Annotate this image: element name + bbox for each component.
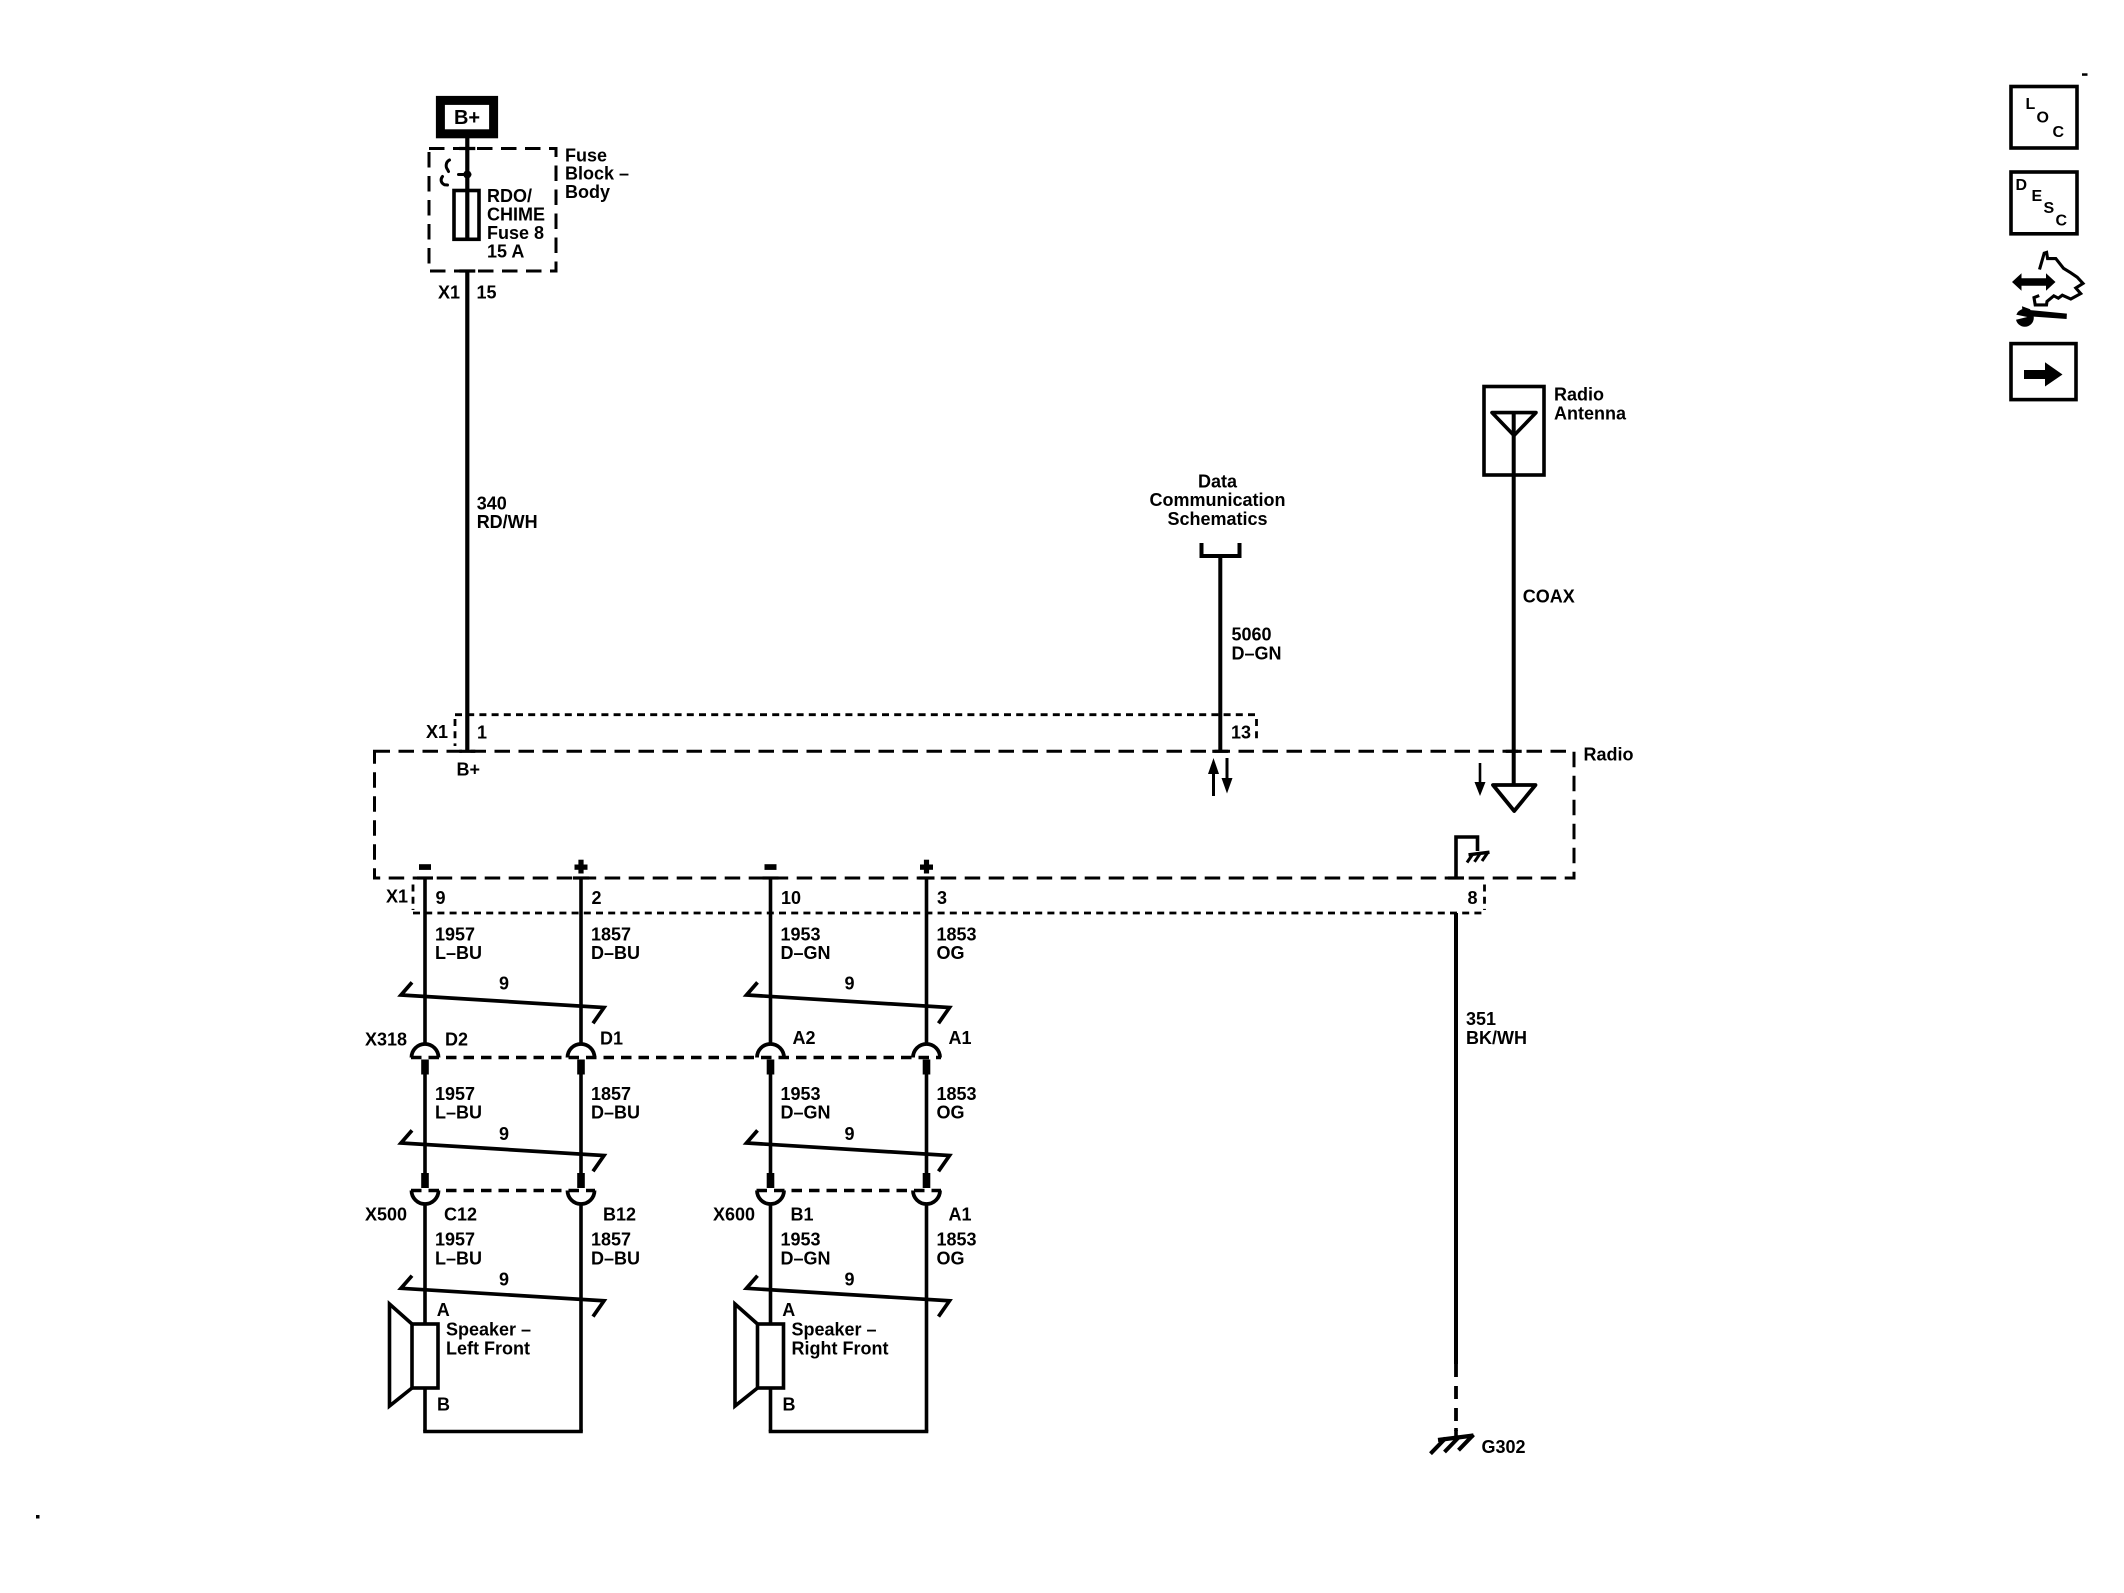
connector X1 pin 15 (fuse block)	[438, 283, 497, 303]
svg-text:Left Front: Left Front	[446, 1338, 530, 1358]
serial data in/out arrows	[1208, 758, 1233, 796]
svg-text:Data: Data	[1198, 472, 1238, 492]
svg-text:13: 13	[1231, 723, 1251, 743]
svg-text:1957: 1957	[435, 1084, 475, 1104]
svg-text:Radio: Radio	[1554, 385, 1604, 405]
antenna plug (hollow arrow)	[1493, 751, 1536, 811]
svg-text:OG: OG	[937, 943, 965, 963]
svg-text:Speaker –: Speaker –	[446, 1320, 531, 1340]
svg-text:RDO/: RDO/	[487, 186, 532, 206]
svg-text:9: 9	[499, 1124, 509, 1144]
svg-text:351: 351	[1466, 1009, 1496, 1029]
svg-text:X1: X1	[438, 283, 460, 303]
svg-text:15: 15	[477, 283, 497, 303]
svg-text:L–BU: L–BU	[435, 1103, 482, 1123]
svg-text:Communication: Communication	[1149, 490, 1285, 510]
speaker - right front	[735, 1300, 928, 1432]
svg-text:X1: X1	[426, 722, 448, 742]
twisted pair symbol row1 right	[747, 974, 950, 1024]
radio internal chassis ground	[1456, 837, 1490, 878]
svg-text:1953: 1953	[781, 1084, 821, 1104]
radio pin 2 (speaker +)	[573, 860, 602, 908]
svg-text:C12: C12	[444, 1205, 477, 1225]
wire 5060 D-GN	[1220, 558, 1281, 751]
svg-text:A1: A1	[949, 1028, 972, 1048]
svg-text:S: S	[2044, 200, 2055, 217]
icon DESC	[2011, 172, 2077, 234]
speaker wires X318 to X500/X600 with labels	[425, 1075, 977, 1174]
svg-text:OG: OG	[937, 1103, 965, 1123]
svg-text:Fuse: Fuse	[565, 146, 607, 166]
wire from B+ terminal to fuse	[465, 138, 469, 191]
svg-text:D–BU: D–BU	[591, 1103, 640, 1123]
radio pin 9 (speaker -)	[417, 864, 446, 908]
svg-text:RD/WH: RD/WH	[477, 512, 538, 532]
mark top right	[2082, 73, 2088, 76]
svg-text:B: B	[437, 1395, 450, 1415]
radio antenna	[1484, 385, 1627, 475]
svg-text:A: A	[782, 1300, 795, 1320]
svg-text:8: 8	[1468, 888, 1478, 908]
twisted pair symbol row1 left	[401, 974, 604, 1024]
svg-text:D–BU: D–BU	[591, 1248, 640, 1268]
twisted pair symbol row3 left	[401, 1269, 604, 1316]
svg-text:9: 9	[499, 974, 509, 994]
svg-text:X318: X318	[365, 1030, 407, 1050]
inline connector X500	[365, 1173, 636, 1225]
inline connector X600	[713, 1173, 972, 1225]
twisted pair symbol row3 right	[747, 1269, 950, 1316]
svg-text:B: B	[783, 1395, 796, 1415]
svg-text:Speaker –: Speaker –	[792, 1320, 877, 1340]
svg-text:Schematics: Schematics	[1167, 509, 1267, 529]
ground G302 label	[1482, 1437, 1526, 1457]
svg-text:BK/WH: BK/WH	[1466, 1028, 1527, 1048]
radio pin 3 (speaker +)	[919, 860, 948, 908]
radio label	[1584, 745, 1634, 765]
speaker - left front	[390, 1300, 583, 1432]
svg-text:D–BU: D–BU	[591, 943, 640, 963]
svg-text:D1: D1	[600, 1029, 623, 1049]
radio (dashed outline)	[375, 751, 1575, 878]
svg-text:1857: 1857	[591, 1084, 631, 1104]
data communication schematics link	[1149, 472, 1285, 557]
svg-text:D2: D2	[445, 1030, 468, 1050]
wire 340 RD/WH	[467, 271, 537, 751]
svg-text:E: E	[2032, 188, 2043, 205]
fuse block - body label	[565, 146, 629, 202]
ground G302	[1431, 1428, 1474, 1454]
svg-text:Body: Body	[565, 182, 610, 202]
wire COAX	[1514, 475, 1575, 796]
svg-text:1957: 1957	[435, 925, 475, 945]
icon service information (arrow, panel, wrench)	[2012, 252, 2083, 326]
svg-text:9: 9	[845, 974, 855, 994]
fuse block - body (dashed outline)	[429, 149, 556, 272]
inline connector X318	[365, 1028, 972, 1074]
svg-text:1853: 1853	[937, 925, 977, 945]
svg-text:O: O	[2037, 110, 2049, 127]
svg-text:CHIME: CHIME	[487, 205, 545, 225]
mark bottom left	[36, 1515, 40, 1519]
svg-text:COAX: COAX	[1523, 587, 1575, 607]
wire 351 BK/WH	[1456, 913, 1527, 1431]
svg-text:A: A	[437, 1300, 450, 1320]
node B+ at radio pin 1	[457, 760, 481, 780]
svg-text:Block –: Block –	[565, 164, 629, 184]
svg-text:L–BU: L–BU	[435, 943, 482, 963]
icon next page arrow	[2011, 344, 2076, 400]
B+ power terminal	[440, 100, 493, 133]
speaker wires X500/X600 to speakers with labels	[425, 1204, 977, 1432]
icon LOC	[2011, 87, 2077, 149]
svg-text:1857: 1857	[591, 1230, 631, 1250]
svg-text:15 A: 15 A	[487, 242, 524, 262]
svg-text:1957: 1957	[435, 1230, 475, 1250]
svg-text:1853: 1853	[937, 1084, 977, 1104]
svg-text:C: C	[2053, 124, 2065, 141]
svg-text:1953: 1953	[781, 925, 821, 945]
svg-text:3: 3	[937, 888, 947, 908]
connector X1 radio bottom	[386, 885, 1485, 914]
svg-text:1857: 1857	[591, 925, 631, 945]
svg-text:9: 9	[499, 1269, 509, 1289]
svg-text:X1: X1	[386, 887, 408, 907]
svg-text:D–GN: D–GN	[781, 943, 831, 963]
svg-text:340: 340	[477, 494, 507, 514]
svg-text:B+: B+	[454, 107, 480, 129]
svg-text:A2: A2	[793, 1028, 816, 1048]
connector X1 radio top (pins 1 and 13)	[426, 715, 1257, 752]
radio pin 10 (speaker -)	[763, 864, 802, 908]
twisted pair symbol row2 right	[747, 1124, 950, 1171]
svg-text:2: 2	[592, 888, 602, 908]
svg-text:D–GN: D–GN	[781, 1103, 831, 1123]
svg-text:X600: X600	[713, 1205, 755, 1225]
svg-text:G302: G302	[1482, 1437, 1526, 1457]
svg-text:X500: X500	[365, 1205, 407, 1225]
svg-text:Right Front: Right Front	[792, 1338, 889, 1358]
svg-text:D: D	[2016, 177, 2028, 194]
svg-text:B12: B12	[603, 1205, 636, 1225]
svg-text:9: 9	[845, 1269, 855, 1289]
twisted pair symbol row2 left	[401, 1124, 604, 1171]
fuse clip symbol	[441, 160, 470, 185]
svg-text:1953: 1953	[781, 1230, 821, 1250]
svg-text:5060: 5060	[1232, 625, 1272, 645]
svg-text:Antenna: Antenna	[1554, 403, 1627, 423]
svg-text:OG: OG	[937, 1248, 965, 1268]
svg-text:1: 1	[477, 723, 487, 743]
svg-text:C: C	[2056, 212, 2068, 229]
svg-text:9: 9	[436, 888, 446, 908]
svg-text:B+: B+	[457, 760, 481, 780]
svg-text:Fuse 8: Fuse 8	[487, 223, 544, 243]
svg-text:Radio: Radio	[1584, 745, 1634, 765]
svg-text:A1: A1	[949, 1205, 972, 1225]
fuse RDO/CHIME Fuse 8 15 A	[454, 186, 545, 262]
svg-text:D–GN: D–GN	[781, 1248, 831, 1268]
svg-text:9: 9	[845, 1124, 855, 1144]
antenna input arrow	[1475, 763, 1486, 796]
svg-text:L–BU: L–BU	[435, 1248, 482, 1268]
svg-text:L: L	[2026, 96, 2036, 113]
svg-text:D–GN: D–GN	[1232, 643, 1282, 663]
svg-text:B1: B1	[791, 1205, 814, 1225]
speaker wires radio to X318 with labels	[425, 878, 977, 1044]
svg-text:10: 10	[781, 888, 801, 908]
radio pin 8 (ground)	[1448, 878, 1478, 908]
svg-text:1853: 1853	[937, 1230, 977, 1250]
junction on feed wire	[463, 171, 471, 179]
